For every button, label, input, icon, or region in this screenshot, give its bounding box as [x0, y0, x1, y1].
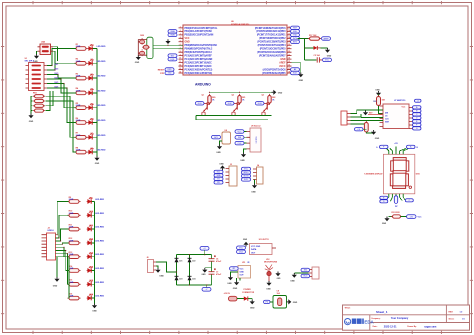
- wire from DIP switch pin 2 to R2: [47, 63, 76, 70]
- svg-text:SW5: SW5: [54, 82, 58, 84]
- resistor RN1C 10K: [33, 104, 45, 107]
- ground GND of U9: [241, 153, 246, 158]
- wire J7 pin2 to ground: [294, 272, 308, 274]
- svg-text:Q3: Q3: [262, 95, 264, 97]
- wire collector rail of drivers: [210, 91, 272, 93]
- bridge loop wires: [177, 254, 212, 256]
- net label U9 pin 1: [235, 130, 244, 134]
- svg-text:Date:: Date:: [373, 325, 378, 328]
- svg-text:220R: 220R: [76, 150, 81, 152]
- wire GND to R28: [378, 94, 380, 96]
- svg-text:DG3: DG3: [258, 103, 262, 105]
- svg-text:LED-RED: LED-RED: [97, 135, 106, 137]
- svg-text:PB1(OC1A/PCINT1)TOSC: PB1(OC1A/PCINT1)TOSC: [185, 30, 213, 33]
- svg-text:LED-RED: LED-RED: [97, 105, 106, 107]
- LED LED11: [87, 225, 93, 231]
- svg-text:220R: 220R: [69, 227, 74, 229]
- resistor R30 10K: [364, 121, 368, 134]
- svg-text:(PCINT23/AIN1/AD7)PD7: (PCINT23/AIN1/AD7)PD7: [259, 55, 286, 58]
- svg-text:VCC: VCC: [325, 60, 330, 62]
- IC U6 pin stubs and pin names: [179, 28, 292, 73]
- svg-text:R31 220R: R31 220R: [392, 212, 401, 214]
- crystal Y1 16MHz circuit loop: [147, 37, 153, 58]
- wire cap midpoint to ground: [205, 267, 212, 269]
- ground GND below J2: [54, 277, 59, 282]
- wire LED row 1 top-left: [89, 48, 97, 50]
- ground GND of U4A: [34, 54, 39, 59]
- svg-text:SLD-2X: SLD-2X: [255, 136, 257, 144]
- LED LED10: [87, 211, 93, 217]
- svg-text:D1: D1: [91, 44, 93, 46]
- wire LED row 2 top-left: [89, 62, 97, 64]
- svg-text:IR1: IR1: [232, 268, 235, 270]
- svg-text:J6: J6: [147, 257, 149, 259]
- svg-text:470uF: 470uF: [216, 260, 222, 263]
- net label J7 pin1: [301, 268, 310, 271]
- svg-text:220R: 220R: [76, 135, 81, 137]
- wire LED row 7 top-left: [89, 136, 97, 138]
- svg-text:LED-RED: LED-RED: [97, 120, 106, 122]
- svg-text:SW_DIP-6: SW_DIP-6: [25, 61, 35, 63]
- svg-text:DQ1: DQ1: [171, 59, 175, 61]
- wire LED row 11: [88, 228, 95, 230]
- DIP switch S1 SW_DIP-6: [26, 63, 48, 91]
- svg-text:GND: GND: [266, 289, 271, 291]
- svg-text:C5 104: C5 104: [314, 54, 321, 57]
- svg-text:MISO: MISO: [244, 172, 249, 174]
- svg-text:Q1: Q1: [202, 95, 204, 97]
- svg-text:D12: D12: [90, 239, 93, 241]
- svg-text:VCC: VCC: [303, 276, 308, 278]
- svg-text:D6: D6: [91, 118, 93, 120]
- svg-text:LED-RED: LED-RED: [95, 296, 104, 298]
- resistor R22 4K7 (collector): [268, 94, 271, 105]
- wire J6 pin2 to ground: [156, 266, 158, 268]
- svg-text:28: 28: [288, 72, 290, 74]
- svg-text:LED-RED: LED-RED: [95, 199, 104, 201]
- net label left of U6 (DQ1): [168, 57, 177, 61]
- svg-text:(ADC6/PCINT7)ADC6: (ADC6/PCINT7)ADC6: [263, 68, 287, 71]
- net label segment f: [413, 123, 422, 126]
- transistor Q3 S8050: [262, 102, 270, 115]
- resistor R16 220R: [67, 296, 80, 300]
- svg-text:D8: D8: [91, 148, 93, 150]
- svg-text:220R: 220R: [69, 213, 74, 215]
- resistor R12 220R: [67, 241, 80, 245]
- LED LED1: [88, 44, 94, 50]
- svg-text:(PCINT21/OC0B/T1)PD5: (PCINT21/OC0B/T1)PD5: [260, 49, 287, 51]
- net label J4 pin 1: [242, 167, 251, 170]
- pushbutton U4A: [38, 44, 54, 55]
- svg-text:SW6: SW6: [54, 87, 58, 89]
- net label left of U6 (BZ1): [168, 54, 177, 58]
- wire J6 pin1 to bridge: [156, 262, 177, 272]
- LED LED13: [87, 253, 93, 259]
- svg-text:10: 10: [179, 58, 181, 60]
- capacitor C1 22pF: [140, 38, 145, 45]
- svg-text:(PCINT19/OC2B/INT1)PD3: (PCINT19/OC2B/INT1)PD3: [257, 42, 286, 44]
- svg-text:AREF: AREF: [323, 37, 329, 40]
- svg-text:GND: GND: [53, 286, 58, 288]
- net label right of U6 pin 17: [291, 33, 300, 37]
- svg-text:VCC: VCC: [238, 131, 243, 133]
- net label J4 pin 3: [242, 174, 251, 177]
- svg-text:GND: GND: [382, 223, 387, 225]
- wire LED row 16: [88, 297, 95, 299]
- svg-text:R28: R28: [373, 101, 376, 103]
- svg-text:GND: GND: [135, 62, 140, 64]
- LED LED7: [88, 133, 94, 139]
- diode D21: [175, 258, 179, 262]
- svg-text:18: 18: [288, 37, 290, 39]
- transistor Q1 S8050: [202, 102, 210, 115]
- svg-text:SWB: SWB: [170, 35, 175, 37]
- capacitor C8 104 loop: [273, 296, 287, 309]
- svg-text:D9: D9: [90, 197, 92, 199]
- svg-text:U4A: U4A: [41, 41, 46, 44]
- svg-text:VCC: VCC: [185, 38, 190, 40]
- svg-text:EDA: EDA: [364, 320, 374, 325]
- resistor R10 220R: [67, 214, 80, 218]
- wire from resistor network to R7: [45, 96, 76, 137]
- wire AVCC branch vertical: [298, 39, 305, 60]
- svg-text:12: 12: [179, 65, 181, 67]
- net label segment b: [413, 109, 422, 112]
- LED LED4: [88, 89, 94, 95]
- svg-text:13: 13: [179, 68, 181, 70]
- ground GND right of U12: [275, 272, 280, 277]
- svg-text:PC2(ADC2/PCINT10)ADC: PC2(ADC2/PCINT10)ADC: [185, 61, 213, 64]
- wire U6 GND pin to ground: [292, 63, 301, 73]
- svg-text:GND: GND: [250, 307, 255, 309]
- svg-text:220R: 220R: [69, 254, 74, 256]
- svg-text:PC3(ADC3/PCINT11)ADC: PC3(ADC3/PCINT11)ADC: [185, 65, 213, 68]
- svg-text:220R: 220R: [69, 199, 74, 201]
- wire connector J2 pin 3 to R11: [56, 229, 69, 241]
- svg-text:U10 DHT11: U10 DHT11: [259, 239, 269, 241]
- svg-text:(PCINT22/OC0A/AIN0)PD6: (PCINT22/OC0A/AIN0)PD6: [257, 51, 286, 54]
- ground arrow on XTAL wire: [165, 39, 170, 44]
- resistor R11 220R: [67, 227, 80, 231]
- wire crystal to U6 XTAL2: [153, 48, 183, 50]
- net label right of U6 pin 16: [291, 30, 300, 34]
- svg-text:D24: D24: [192, 278, 195, 281]
- svg-text:23: 23: [288, 54, 290, 56]
- net label U9 pin 3: [235, 141, 244, 145]
- net label right of U6 pin 15: [291, 26, 300, 30]
- svg-text:LED-RED: LED-RED: [97, 61, 106, 63]
- net label J3 pin 5: [214, 181, 223, 184]
- wire LED row 5 top-left: [89, 107, 97, 109]
- connector J3 header: [226, 166, 238, 186]
- wire from DIP switch pin 3 to R3: [47, 75, 76, 79]
- svg-text:D21: D21: [179, 261, 182, 263]
- capacitor C7 470uF: [209, 268, 216, 274]
- ground GND of U11 b: [234, 281, 239, 286]
- svg-text:PB5(SCK/PCINT5)ADC13: PB5(SCK/PCINT5)ADC13: [185, 51, 213, 54]
- net label bridge - output: [202, 288, 211, 292]
- svg-text:DG2: DG2: [228, 103, 232, 105]
- ground GND of J7: [292, 273, 297, 278]
- wire crystal to U6 XTAL1: [153, 44, 183, 46]
- wire J4 to ground: [254, 180, 256, 184]
- wire emitter rail of drivers: [196, 115, 272, 117]
- diode D23: [175, 276, 179, 280]
- svg-text:Q2: Q2: [232, 95, 234, 97]
- ground GND of bottom-left LED rail: [92, 304, 97, 309]
- wire connector J2 pin 1 to R9: [56, 202, 69, 235]
- ground GND of crystal: [136, 55, 141, 60]
- svg-text:GND: GND: [216, 152, 221, 154]
- wire U4A pin4 loop: [53, 51, 55, 63]
- ground GND of J6: [155, 268, 160, 273]
- LED LED12: [87, 239, 93, 245]
- display segment G: [393, 171, 406, 174]
- svg-text:VCC: VCC: [239, 247, 244, 249]
- buzzer U8 loop: [222, 132, 231, 144]
- resistor R13 220R: [67, 255, 80, 259]
- wire bridge + rail to caps: [211, 255, 213, 285]
- net label display bottom center: [394, 196, 397, 204]
- wire R30 to ground: [366, 132, 373, 133]
- net label right of U6 pin 28: [291, 71, 300, 75]
- svg-text:15: 15: [288, 27, 290, 29]
- title block inner lines: [343, 305, 470, 330]
- display segment E: [390, 174, 393, 186]
- svg-text:220R: 220R: [76, 61, 81, 63]
- wire LED row 14: [88, 270, 95, 272]
- svg-text:GND: GND: [233, 288, 238, 290]
- capacitor C2 22pF: [140, 49, 145, 56]
- svg-text:LED-RED: LED-RED: [97, 90, 106, 92]
- svg-text:D2: D2: [91, 59, 93, 61]
- LED LED9: [87, 197, 93, 203]
- net label display bottom right: [405, 199, 413, 202]
- svg-text:+5: +5: [417, 101, 419, 103]
- svg-text:REV:: REV:: [449, 312, 454, 314]
- svg-text:16M: 16M: [140, 35, 144, 37]
- svg-text:21: 21: [288, 47, 290, 49]
- wire U4A pin3 loop: [53, 47, 58, 61]
- svg-text:GND: GND: [219, 164, 224, 166]
- svg-text:VCC: VCC: [418, 217, 423, 219]
- svg-text:+5V IN: +5V IN: [224, 293, 231, 295]
- wire from DIP switch pin 4 to R4: [47, 79, 76, 93]
- wire LED row 12: [88, 242, 95, 244]
- wire from DIP switch pin 6 to R6: [47, 88, 76, 123]
- display segment B: [406, 161, 409, 171]
- net label left of U6 (SWA): [168, 30, 177, 34]
- svg-text:2022-12-21: 2022-12-21: [384, 325, 397, 328]
- svg-text:DG1: DG1: [198, 103, 202, 105]
- svg-text:220R: 220R: [76, 76, 81, 78]
- svg-text:DTR: DTR: [160, 73, 165, 75]
- resistor R4 220R: [74, 91, 87, 95]
- svg-text:GND: GND: [243, 239, 248, 241]
- svg-text:SW3: SW3: [54, 73, 58, 75]
- svg-text:HDR-8: HDR-8: [48, 230, 55, 232]
- svg-text:GND: GND: [278, 92, 283, 94]
- svg-text:D10: D10: [90, 211, 93, 213]
- net label segment g: [413, 127, 422, 130]
- title block outer box: [343, 305, 470, 330]
- wire U9 pin4 to ground: [244, 149, 247, 153]
- net label left of U6 (SWB): [168, 33, 177, 37]
- LED LED8: [88, 148, 94, 154]
- net label J3 pin 3: [214, 174, 223, 177]
- LED LED15: [87, 280, 93, 286]
- svg-text:AREF: AREF: [279, 61, 286, 64]
- red net highlight: [368, 114, 382, 116]
- svg-text:INT1: INT1: [293, 41, 297, 43]
- wire from DIP switch pin 5 to R5: [47, 84, 76, 108]
- wire resistor network row4 to bus: [45, 91, 50, 111]
- wire connector J2 pin 8 to R16: [56, 257, 70, 298]
- svg-text:GND: GND: [251, 192, 256, 194]
- svg-text:VCC: VCC: [240, 269, 245, 271]
- svg-text:MICROPHONE: MICROPHONE: [264, 262, 278, 264]
- transistor Q2 S8050: [232, 102, 240, 115]
- svg-text:D16: D16: [90, 294, 93, 296]
- ground GND of buzzer: [217, 145, 222, 150]
- net label J3 pin 2: [214, 170, 223, 173]
- svg-text:LED-RED: LED-RED: [95, 282, 104, 284]
- net label AVCC decouple: [323, 58, 332, 62]
- svg-text:GND: GND: [280, 59, 285, 61]
- wire connector J2 pin 7 to R15: [56, 254, 69, 285]
- net label right of U6 pin 19: [291, 40, 300, 44]
- net label display top right: [407, 145, 416, 148]
- resistor RN1D 10K: [33, 109, 45, 112]
- ground arrow at driver rail: [272, 90, 277, 95]
- svg-text:LED-RED: LED-RED: [95, 213, 104, 215]
- svg-text:(PCINT16/RXD/ADC12)PD0: (PCINT16/RXD/ADC12)PD0: [256, 30, 286, 33]
- svg-text:P0: P0: [266, 302, 268, 304]
- wire connector J2 pin 5 to R13: [56, 247, 69, 256]
- svg-text:(PCINT20/XCK/T0/A2)PD4: (PCINT20/XCK/T0/A2)PD4: [258, 44, 287, 47]
- display segment A: [393, 158, 406, 161]
- wire U11 to ground 1: [231, 272, 239, 276]
- svg-text:Company:: Company:: [371, 318, 381, 320]
- svg-text:GND: GND: [299, 80, 304, 82]
- svg-text:MOSI: MOSI: [244, 176, 249, 178]
- svg-text:C8: C8: [277, 290, 279, 292]
- wire lower rail of drivers: [196, 119, 268, 121]
- svg-text:PB4(MISO/PCINT4)XTAL2: PB4(MISO/PCINT4)XTAL2: [185, 48, 214, 51]
- net label segment a: [413, 106, 422, 109]
- resistor RN1A 10K: [33, 95, 45, 98]
- svg-text:Drawn By:: Drawn By:: [407, 326, 417, 328]
- svg-text:GND: GND: [92, 311, 97, 313]
- wire LED row 10: [88, 214, 95, 216]
- ground GND of power input: [250, 300, 255, 305]
- net label bridge + output: [200, 247, 209, 251]
- wire resistor network left common: [31, 96, 32, 113]
- wire connector J2 to ground: [56, 257, 58, 277]
- svg-text:LED-RED: LED-RED: [95, 254, 104, 256]
- display bottom pin wires: [389, 194, 403, 197]
- net label buzzer: [212, 135, 221, 139]
- resistor R5 220R: [74, 106, 87, 110]
- svg-text:SWA: SWA: [170, 30, 175, 33]
- svg-text:(PCINT18/INT0/OC2)PD2: (PCINT18/INT0/OC2)PD2: [259, 38, 286, 40]
- svg-text:GND: GND: [29, 121, 34, 123]
- net label U10 pin1: [237, 246, 246, 250]
- connector J6 AC input: [148, 260, 157, 273]
- ground GND of U11 a: [228, 276, 233, 281]
- svg-text:16: 16: [288, 30, 290, 32]
- svg-text:220R: 220R: [76, 46, 81, 48]
- svg-text:SCL: SCL: [217, 172, 221, 174]
- svg-text:ARDUINO: ARDUINO: [195, 83, 211, 87]
- svg-text:U11: U11: [242, 262, 245, 264]
- ground GND of resistor network: [28, 114, 33, 119]
- ground GND of R30: [371, 130, 376, 135]
- wire LED row 4 top-left: [89, 92, 97, 94]
- net label segment c: [413, 113, 422, 116]
- svg-text:Sheet_1: Sheet_1: [376, 310, 388, 314]
- svg-text:220R: 220R: [76, 90, 81, 92]
- wire jack to diode: [237, 298, 244, 300]
- svg-text:LED-RED: LED-RED: [97, 150, 106, 152]
- net label J7 pin3: [301, 274, 310, 277]
- svg-text:220R: 220R: [76, 105, 81, 107]
- svg-text:GND: GND: [293, 302, 298, 304]
- wire right rail of bottom-left LED column: [94, 202, 96, 304]
- svg-text:GND: GND: [290, 281, 295, 283]
- svg-text:RESET: RESET: [158, 69, 165, 71]
- wire resistor network row3 to bus: [45, 91, 53, 106]
- connector J2 HDR-8: [42, 233, 56, 260]
- svg-text:DQ1: DQ1: [239, 251, 243, 253]
- svg-text:GND: GND: [240, 272, 245, 274]
- resistor R17 10K (AREF): [305, 38, 310, 40]
- svg-text:U7 MAX7219: U7 MAX7219: [394, 99, 405, 102]
- wire crystal cap common (red): [138, 40, 147, 56]
- logo JLC EDA: [345, 319, 375, 325]
- svg-text:LED-RED: LED-RED: [97, 46, 106, 48]
- IC U7 pin stubs: [380, 106, 413, 129]
- svg-text:GND: GND: [159, 276, 164, 278]
- svg-text:470uF: 470uF: [216, 273, 222, 276]
- sensor U11 body: [238, 266, 251, 279]
- crystal Y1: [142, 45, 150, 49]
- svg-text:A6: A6: [294, 68, 296, 71]
- sensor U10 DHT11 body: [250, 244, 277, 255]
- resistor R9 220R: [67, 200, 80, 204]
- wire LED row 13: [88, 256, 95, 258]
- resistor R21 4K7 (collector): [238, 94, 241, 105]
- diode D24: [188, 276, 192, 280]
- svg-text:PC1(ADC1/PCINT9)AGND: PC1(ADC1/PCINT9)AGND: [185, 58, 213, 61]
- svg-text:26: 26: [288, 65, 290, 67]
- svg-text:D22: D22: [192, 261, 195, 263]
- svg-text:AVCC: AVCC: [279, 65, 286, 68]
- svg-text:CONNECTOR: CONNECTOR: [242, 292, 255, 294]
- svg-text:RN1: RN1: [33, 92, 37, 94]
- svg-text:20: 20: [288, 44, 290, 46]
- svg-text:LED-RED: LED-RED: [95, 240, 104, 242]
- wire connector J2 pin 4 to R12: [56, 243, 69, 244]
- capacitor C8 body: [278, 298, 282, 306]
- diode D25 polarity: [244, 296, 252, 300]
- net label J4 pin 4: [242, 178, 251, 181]
- ground GND of R31: [384, 217, 389, 222]
- svg-text:D7: D7: [91, 133, 93, 135]
- resistor R1 220R: [74, 47, 87, 51]
- LED LED5: [88, 104, 94, 110]
- net label J3 pin 4: [214, 177, 223, 180]
